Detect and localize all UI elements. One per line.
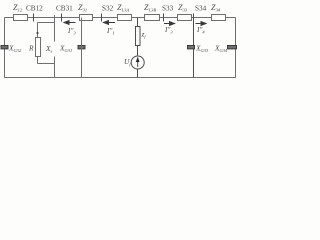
svg-text:Xs: Xs: [45, 44, 53, 54]
svg-text:I″1: I″1: [106, 27, 115, 36]
svg-text:I″3: I″3: [164, 26, 173, 35]
svg-text:XG33: XG33: [195, 44, 209, 54]
svg-text:XG32: XG32: [8, 44, 22, 54]
svg-text:Z33: Z33: [178, 3, 188, 13]
svg-text:XG34: XG34: [214, 44, 228, 54]
svg-text:Z12: Z12: [13, 3, 23, 13]
svg-text:S33: S33: [162, 5, 174, 13]
svg-text:Z31: Z31: [78, 3, 87, 13]
svg-text:ZL3A: ZL3A: [117, 3, 129, 13]
svg-text:CB12: CB12: [26, 5, 43, 13]
svg-text:I″4: I″4: [196, 26, 205, 35]
svg-text:XG31: XG31: [59, 44, 72, 54]
svg-text:R: R: [28, 44, 34, 53]
svg-text:Uf: Uf: [124, 57, 131, 67]
svg-text:S34: S34: [195, 5, 207, 13]
svg-text:CB31: CB31: [56, 5, 73, 13]
svg-text:ZL3B: ZL3B: [144, 3, 156, 13]
svg-text:S32: S32: [102, 5, 114, 13]
svg-text:zf: zf: [141, 30, 147, 40]
svg-text:I″3: I″3: [67, 27, 76, 36]
svg-text:Z34: Z34: [211, 3, 221, 13]
